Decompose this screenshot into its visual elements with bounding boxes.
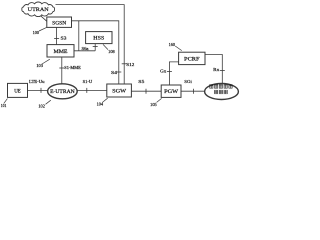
tick S1-U <box>86 88 88 93</box>
svg-text:105: 105 <box>150 102 157 107</box>
leader 105 to PGW <box>157 98 162 102</box>
tick S3 <box>54 38 59 40</box>
svg-text:SGi: SGi <box>184 79 192 84</box>
leader 104 to SGW <box>102 98 107 102</box>
wire S4 horizontal from SGSN to SGW <box>72 21 119 84</box>
svg-text:PGW: PGW <box>164 90 178 95</box>
svg-text:103: 103 <box>36 63 43 68</box>
tick LTE-Uu <box>40 88 42 93</box>
wire LTE-Uu UE to E-UTRAN <box>28 89 48 91</box>
tick Gx <box>167 70 172 72</box>
svg-text:Rx: Rx <box>213 67 220 72</box>
wire Gx PCRF to PGW <box>169 62 178 85</box>
tick S1-MME <box>59 67 64 69</box>
svg-text:PCRF: PCRF <box>184 57 200 62</box>
leader 102 to E-UTRAN <box>46 100 51 104</box>
svg-text:MME: MME <box>54 50 68 55</box>
tick S6a <box>93 46 98 48</box>
box UE <box>8 83 28 97</box>
ellipse operator services <box>205 84 239 100</box>
leader 100 to SGSN <box>39 27 47 31</box>
svg-text:S1-U: S1-U <box>83 79 93 84</box>
wire SGSN/HSS branch vertical <box>78 21 80 51</box>
svg-text:SGSN: SGSN <box>52 22 66 27</box>
svg-text:HSS: HSS <box>93 37 104 42</box>
svg-text:S3: S3 <box>61 36 68 41</box>
operator services CJK text row 2 <box>214 90 227 94</box>
wire HSS bottom vertical <box>94 44 96 51</box>
operator services CJK text row 1 <box>210 85 233 94</box>
tick S4 <box>116 71 121 73</box>
leader 160 to PCRF <box>175 46 182 51</box>
cloud UTRAN <box>22 2 55 17</box>
svg-text:100: 100 <box>33 30 40 35</box>
box MME <box>47 45 74 57</box>
box HSS <box>86 32 112 44</box>
leader 103 to MME <box>42 59 50 64</box>
svg-text:UE: UE <box>14 89 21 94</box>
svg-text:SGW: SGW <box>112 89 126 94</box>
tick S12 <box>122 63 127 65</box>
wire UTRAN to SGSN diagonal <box>40 15 47 21</box>
wire S1-U E-UTRAN to SGW <box>77 89 107 91</box>
svg-text:E-UTRAN: E-UTRAN <box>50 90 75 95</box>
wire S5 SGW to PGW <box>131 90 161 92</box>
box SGSN <box>47 17 72 27</box>
svg-text:108: 108 <box>108 49 115 54</box>
svg-text:S1-MME: S1-MME <box>64 65 81 70</box>
svg-text:104: 104 <box>97 102 104 107</box>
box PCRF <box>179 52 205 64</box>
svg-text:102: 102 <box>38 104 45 109</box>
svg-text:160: 160 <box>169 42 176 47</box>
svg-text:UTRAN: UTRAN <box>28 7 49 13</box>
wire S3 vertical SGSN to MME <box>56 28 58 45</box>
box SGW <box>107 84 132 97</box>
leader 101 to UE <box>4 99 8 104</box>
svg-text:S5: S5 <box>138 79 145 84</box>
tick S5 <box>145 89 147 94</box>
box PGW <box>161 85 181 97</box>
leader 108 to HSS <box>103 44 108 49</box>
svg-text:101: 101 <box>1 103 7 108</box>
tick SGi <box>193 89 195 94</box>
svg-text:LTE-Uu: LTE-Uu <box>29 79 46 84</box>
tick Rx <box>220 70 225 72</box>
svg-text:S6a: S6a <box>82 46 89 51</box>
wire S6a horizontal MME to HSS branch <box>74 50 95 52</box>
svg-text:S4: S4 <box>111 70 118 75</box>
ellipse E-UTRAN <box>48 84 78 99</box>
wire S1-MME vertical MME to E-UTRAN <box>61 57 63 84</box>
svg-text:Gx: Gx <box>160 69 167 74</box>
wire S12 top horizontal from UTRAN cloud to corner <box>56 5 125 84</box>
wire SGi PGW to services ellipse <box>181 90 205 92</box>
wire Rx PCRF to services ellipse <box>205 55 222 84</box>
svg-text:S12: S12 <box>126 62 134 67</box>
